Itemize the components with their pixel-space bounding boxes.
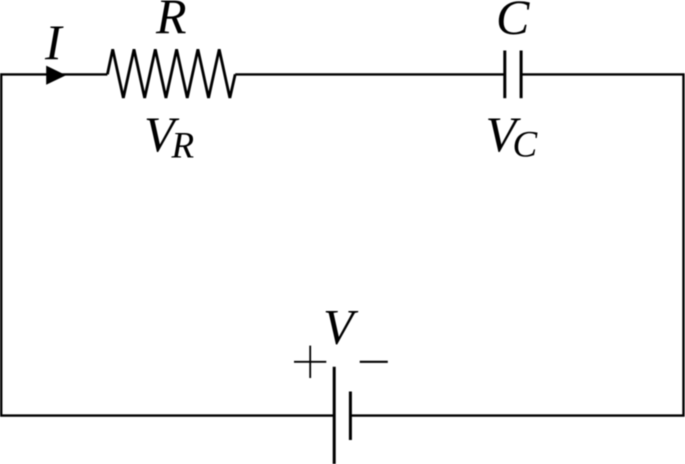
svg-text:VR: VR [144,106,194,167]
svg-text:C: C [496,0,530,45]
svg-text:I: I [44,14,64,70]
svg-text:VC: VC [486,106,539,166]
svg-text:R: R [155,0,187,44]
svg-text:V: V [323,299,359,355]
